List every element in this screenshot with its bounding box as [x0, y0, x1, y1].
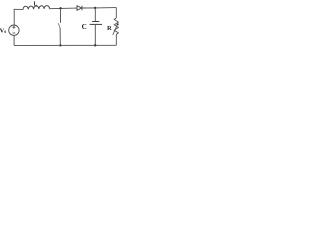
wire bottom rail — [14, 44, 116, 46]
switch S (upper lead) — [60, 8, 62, 23]
capacitor C (bottom lead) — [94, 25, 96, 46]
wire left vertical (source to bottom rail) — [13, 35, 15, 45]
svg-text:C: C — [82, 23, 87, 31]
capacitor C (top lead) — [94, 8, 96, 21]
capacitor C (bottom plate) — [90, 23, 102, 25]
node switch-bottom junction — [59, 44, 61, 46]
wire right vertical lower — [115, 34, 117, 45]
resistor R (zigzag) — [114, 18, 118, 35]
wire top rail to right corner — [95, 7, 116, 9]
capacitor C (top plate) — [92, 21, 99, 23]
node switch-top junction — [59, 7, 61, 9]
switch S (lower lead) — [59, 28, 61, 45]
diode D — [77, 6, 82, 11]
svg-text:R: R — [107, 25, 112, 32]
inductor L — [23, 6, 50, 10]
wire top-left horizontal — [14, 8, 23, 10]
voltage source Vs — [9, 25, 19, 35]
wire left vertical (source to top rail) — [13, 9, 15, 25]
wire top right (diode to output node) — [82, 7, 95, 9]
node output-top junction — [94, 7, 96, 9]
switch S (blade) — [58, 23, 60, 28]
wire right vertical upper — [115, 8, 117, 18]
svg-text:L: L — [34, 1, 38, 7]
variable-resistor arrow — [113, 25, 118, 35]
node output-bottom junction — [94, 44, 96, 46]
wire top middle (inductor to diode) — [50, 7, 78, 10]
